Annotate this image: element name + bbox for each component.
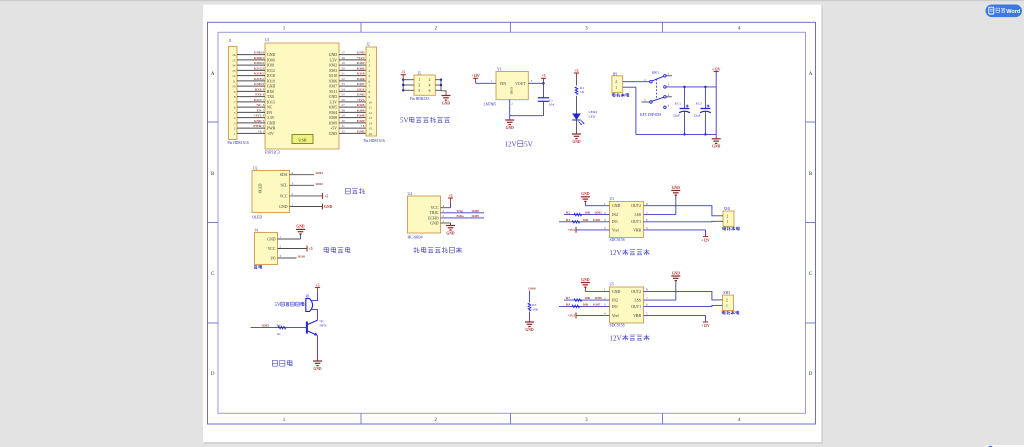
svg-text:IO07: IO07 (593, 302, 601, 306)
svg-text:11: 11 (369, 106, 373, 110)
svg-text:GND: GND (267, 121, 275, 125)
svg-text:9: 9 (369, 95, 371, 99)
svg-text:Vref: Vref (612, 228, 619, 232)
svg-text:GND: GND (672, 186, 681, 190)
svg-text:27: 27 (342, 103, 346, 107)
svg-text:Word: Word (1006, 9, 1020, 15)
svg-text:11: 11 (261, 77, 264, 81)
svg-text:13: 13 (232, 69, 236, 73)
svg-text:+5: +5 (575, 69, 579, 73)
svg-text:IO09: IO09 (329, 121, 337, 125)
svg-text:10: 10 (261, 82, 265, 86)
svg-text:I/O: I/O (270, 256, 275, 260)
svg-text:IO10: IO10 (298, 255, 306, 259)
svg-text:NC: NC (267, 106, 273, 110)
svg-text:26: 26 (342, 98, 346, 102)
svg-text:14: 14 (369, 121, 373, 125)
svg-text:8: 8 (234, 95, 236, 99)
svg-text:+5: +5 (258, 129, 262, 133)
svg-text:SDA: SDA (280, 173, 288, 177)
svg-text:16: 16 (232, 53, 236, 57)
svg-text:IO02: IO02 (595, 211, 603, 215)
svg-text:VCC: VCC (431, 206, 439, 210)
svg-text:7: 7 (234, 100, 236, 104)
svg-text:SCL: SCL (281, 184, 289, 188)
svg-text:+5: +5 (361, 124, 365, 128)
svg-text:29: 29 (342, 114, 346, 118)
svg-text:EN: EN (267, 111, 272, 115)
svg-text:VIN: VIN (500, 82, 507, 86)
svg-text:4: 4 (369, 69, 371, 73)
svg-text:31: 31 (342, 124, 346, 128)
svg-text:+3V3: +3V3 (567, 228, 575, 232)
svg-text:GND: GND (581, 278, 590, 282)
svg-text:15: 15 (261, 56, 265, 60)
svg-text:GND: GND (296, 225, 305, 229)
svg-text:XH1: XH1 (724, 207, 731, 211)
svg-text:5: 5 (369, 74, 371, 78)
svg-text:IO06: IO06 (595, 296, 603, 300)
svg-text:IO03: IO03 (316, 171, 324, 175)
svg-text:IO02: IO02 (316, 182, 324, 186)
svg-text:1: 1 (726, 304, 728, 308)
svg-text:IO06: IO06 (329, 79, 337, 83)
svg-text:R9: R9 (566, 302, 570, 306)
svg-text:J1: J1 (229, 39, 232, 43)
svg-text:IN2: IN2 (612, 299, 618, 303)
svg-text:1: 1 (234, 132, 236, 136)
svg-text:3: 3 (418, 84, 420, 88)
svg-text:12V: 12V (610, 249, 623, 257)
svg-text:GND: GND (267, 85, 275, 89)
svg-text:10K: 10K (583, 218, 589, 222)
svg-text:GND: GND (525, 328, 534, 332)
svg-text:IO10: IO10 (329, 74, 337, 78)
svg-text:+5: +5 (542, 74, 546, 78)
svg-text:3.3V: 3.3V (330, 58, 338, 62)
svg-text:30: 30 (342, 119, 346, 123)
svg-text:IO01: IO01 (267, 64, 275, 68)
svg-text:12: 12 (261, 72, 265, 76)
svg-text:Pin HDR2X3: Pin HDR2X3 (410, 97, 430, 101)
svg-text:OLED: OLED (259, 183, 263, 193)
svg-text:IO09: IO09 (472, 214, 480, 218)
svg-text:SDC9158: SDC9158 (610, 324, 625, 328)
svg-text:R7: R7 (566, 296, 570, 300)
svg-text:GND: GND (672, 271, 681, 275)
svg-text:+12V: +12V (701, 239, 710, 243)
svg-text:22: 22 (342, 77, 346, 81)
svg-text:2: 2 (429, 78, 431, 82)
svg-text:12V: 12V (610, 334, 623, 342)
svg-text:22uF: 22uF (694, 114, 701, 118)
svg-text:25: 25 (342, 93, 346, 97)
svg-text:21: 21 (342, 72, 346, 76)
svg-text:GND: GND (572, 140, 581, 144)
svg-text:ECHO: ECHO (428, 216, 439, 220)
svg-text:IO08: IO08 (472, 209, 480, 213)
svg-text:IO09: IO09 (357, 119, 365, 123)
svg-text:+5V: +5V (267, 132, 274, 136)
svg-text:12: 12 (369, 111, 373, 115)
svg-text:GND: GND (267, 53, 275, 57)
svg-text:+3V3: +3V3 (567, 314, 575, 318)
svg-text:OLED: OLED (252, 215, 262, 219)
svg-text:IO05: IO05 (357, 103, 365, 107)
svg-text:17: 17 (342, 51, 346, 55)
svg-text:GND: GND (612, 204, 620, 208)
svg-text:+5: +5 (309, 247, 313, 251)
svg-text:IO10: IO10 (357, 72, 365, 76)
svg-text:EC2: EC2 (696, 101, 702, 105)
svg-text:14: 14 (232, 64, 236, 68)
svg-text:3: 3 (369, 64, 371, 68)
svg-text:24: 24 (342, 87, 346, 91)
svg-text:J4: J4 (255, 228, 258, 232)
svg-text:5: 5 (418, 89, 420, 93)
svg-text:32: 32 (342, 129, 346, 133)
svg-text:GND: GND (324, 205, 333, 209)
svg-text:16: 16 (369, 132, 373, 136)
svg-text:10K: 10K (583, 302, 589, 306)
svg-text:IO00: IO00 (267, 58, 275, 62)
svg-text:22uF: 22uF (673, 114, 680, 118)
svg-text:2: 2 (727, 214, 729, 218)
svg-text:GND: GND (254, 119, 262, 123)
svg-text:IO05: IO05 (262, 324, 270, 328)
svg-text:IN1: IN1 (612, 220, 618, 224)
svg-text:R3: R3 (532, 303, 536, 307)
svg-text:PWR: PWR (267, 127, 276, 131)
svg-text:EC1: EC1 (675, 101, 681, 105)
svg-text:12: 12 (232, 74, 236, 78)
svg-text:GND: GND (712, 145, 721, 149)
svg-text:18: 18 (342, 56, 346, 60)
svg-text:GND: GND (509, 87, 513, 95)
svg-text:IN1: IN1 (612, 305, 618, 309)
svg-text:GND: GND (329, 132, 337, 136)
svg-text:Echo: Echo (457, 214, 465, 218)
svg-text:D: D (211, 372, 215, 377)
svg-text:IO13: IO13 (267, 100, 275, 104)
svg-text:R6: R6 (277, 324, 281, 328)
svg-text:10: 10 (232, 85, 236, 89)
svg-text:Pin HDR1X16: Pin HDR1X16 (364, 139, 385, 143)
svg-text:PWR: PWR (253, 124, 262, 128)
svg-text:NC: NC (256, 103, 262, 107)
svg-text:GND: GND (430, 221, 438, 225)
svg-text:1K: 1K (277, 332, 282, 336)
svg-text:14: 14 (261, 61, 265, 65)
svg-text:9: 9 (234, 90, 236, 94)
svg-text:7: 7 (369, 85, 371, 89)
svg-text:KFT DIP-8X8: KFT DIP-8X8 (640, 113, 661, 117)
svg-text:A: A (809, 72, 813, 77)
svg-text:3.3V: 3.3V (330, 100, 338, 104)
svg-text:R2: R2 (566, 211, 570, 215)
svg-text:+3V3: +3V3 (356, 56, 364, 60)
svg-text:GND: GND (329, 95, 337, 99)
svg-text:+3V3: +3V3 (356, 98, 364, 102)
svg-text:+5: +5 (316, 283, 320, 287)
svg-text:15: 15 (232, 58, 236, 62)
svg-text:19: 19 (342, 61, 346, 65)
svg-text:2: 2 (234, 127, 236, 131)
svg-text:Q1: Q1 (320, 319, 325, 323)
svg-text:4: 4 (429, 84, 431, 88)
svg-text:+3V3: +3V3 (253, 114, 261, 118)
svg-text:6: 6 (369, 79, 371, 83)
svg-text:IO12: IO12 (267, 69, 275, 73)
svg-text:10K: 10K (585, 296, 591, 300)
svg-text:GND: GND (581, 192, 590, 196)
svg-text:SW1: SW1 (652, 71, 659, 75)
svg-text:IO03: IO03 (593, 218, 601, 222)
svg-text:U1: U1 (265, 38, 270, 42)
svg-text:R1: R1 (580, 86, 584, 90)
svg-text:2: 2 (726, 298, 728, 302)
svg-text:IO18: IO18 (267, 74, 275, 78)
svg-text:13: 13 (369, 116, 373, 120)
svg-text:LM7805: LM7805 (484, 102, 497, 106)
svg-text:D: D (809, 372, 813, 377)
svg-text:VBB: VBB (633, 314, 641, 318)
svg-text:OUT2: OUT2 (631, 290, 641, 294)
svg-text:GND: GND (612, 290, 620, 294)
svg-text:6: 6 (234, 106, 236, 110)
svg-text:+5: +5 (401, 71, 405, 75)
svg-text:+5V: +5V (330, 127, 337, 131)
svg-text:12V: 12V (505, 140, 518, 148)
svg-text:J2: J2 (367, 43, 370, 47)
svg-text:A: A (211, 72, 215, 77)
svg-text:1: 1 (418, 78, 420, 82)
svg-text:OUT1: OUT1 (631, 220, 641, 224)
svg-text:1: 1 (369, 53, 371, 57)
svg-text:TX0: TX0 (255, 93, 262, 97)
svg-text:IO04: IO04 (329, 111, 337, 115)
svg-text:U2: U2 (253, 166, 258, 170)
svg-text:IO08: IO08 (329, 116, 337, 120)
svg-text:GND: GND (442, 101, 451, 105)
svg-text:1: 1 (727, 220, 729, 224)
svg-text:VOUT: VOUT (515, 82, 526, 86)
svg-text:IO04: IO04 (357, 108, 365, 112)
svg-text:3: 3 (234, 121, 236, 125)
svg-text:IO08: IO08 (357, 114, 365, 118)
svg-text:1K: 1K (580, 90, 585, 94)
svg-text:IO06: IO06 (357, 77, 365, 81)
svg-text:ESP32C3: ESP32C3 (265, 150, 280, 154)
svg-text:3.3V: 3.3V (267, 116, 275, 120)
svg-text:LSS: LSS (634, 213, 641, 217)
svg-text:5V: 5V (400, 117, 410, 125)
svg-text:IO06: IO06 (528, 287, 536, 291)
svg-text:13: 13 (261, 66, 265, 70)
svg-text:NPN: NPN (320, 324, 327, 328)
svg-text:VBB: VBB (633, 228, 641, 232)
svg-text:OUT1: OUT1 (631, 305, 641, 309)
svg-text:Trig: Trig (457, 209, 463, 213)
svg-text:GND: GND (357, 93, 365, 97)
svg-text:IO03: IO03 (329, 69, 337, 73)
svg-text:VCC: VCC (268, 247, 276, 251)
svg-text:2: 2 (369, 58, 371, 62)
svg-text:TRIG: TRIG (430, 211, 439, 215)
svg-text:U5: U5 (610, 283, 615, 287)
svg-text:GND: GND (446, 231, 455, 235)
svg-text:8: 8 (369, 90, 371, 94)
svg-text:GND: GND (357, 129, 365, 133)
svg-text:IO03: IO03 (357, 66, 365, 70)
svg-text:IO02: IO02 (357, 61, 365, 65)
svg-text:10K: 10K (585, 211, 591, 215)
svg-text:GND: GND (357, 51, 365, 55)
svg-text:IO11: IO11 (329, 90, 337, 94)
svg-text:11: 11 (232, 79, 236, 83)
svg-text:GND: GND (279, 205, 287, 209)
svg-text:IO11: IO11 (357, 87, 365, 91)
svg-text:1: 1 (615, 86, 617, 90)
svg-text:EN: EN (257, 108, 262, 112)
svg-text:SDC9158: SDC9158 (610, 238, 625, 242)
svg-text:GND: GND (267, 237, 275, 241)
svg-text:5V: 5V (275, 303, 281, 308)
svg-text:USB: USB (298, 137, 306, 142)
svg-text:RX0: RX0 (255, 87, 262, 91)
svg-text:OUT2: OUT2 (631, 204, 641, 208)
svg-text:IO02: IO02 (329, 64, 337, 68)
svg-text:+12V: +12V (701, 324, 710, 328)
svg-text:U3: U3 (610, 197, 615, 201)
svg-text:28: 28 (342, 108, 346, 112)
svg-text:20: 20 (342, 66, 346, 70)
svg-text:10K: 10K (532, 307, 539, 311)
svg-text:10: 10 (369, 100, 373, 104)
svg-text:6: 6 (429, 89, 431, 93)
svg-text:4: 4 (234, 116, 236, 120)
svg-text:VCC: VCC (280, 194, 288, 198)
svg-text:TX0: TX0 (267, 95, 274, 99)
svg-text:Vref: Vref (612, 314, 619, 318)
svg-text:2: 2 (615, 80, 617, 84)
svg-text:23: 23 (342, 82, 346, 86)
svg-text:RX0: RX0 (267, 90, 274, 94)
svg-text:IO05: IO05 (329, 106, 337, 110)
svg-text:B1: B1 (306, 294, 310, 298)
svg-text:GND: GND (506, 126, 515, 130)
svg-text:LED: LED (589, 114, 596, 118)
svg-text:15: 15 (369, 127, 373, 131)
svg-text:IO07: IO07 (357, 82, 365, 86)
svg-text:IN2: IN2 (612, 213, 618, 217)
svg-text:R4: R4 (566, 218, 570, 222)
svg-text:16: 16 (261, 51, 265, 55)
svg-text:+12V: +12V (712, 67, 721, 71)
svg-text:XH3: XH3 (723, 291, 730, 295)
svg-text:GND: GND (329, 53, 337, 57)
svg-text:+5: +5 (324, 194, 328, 198)
svg-text:+5: +5 (449, 194, 453, 198)
svg-text:IO13: IO13 (254, 98, 262, 102)
svg-text:104: 104 (549, 103, 555, 107)
svg-text:5: 5 (234, 111, 236, 115)
svg-text:IO07: IO07 (329, 85, 337, 89)
svg-text:HC-SR04: HC-SR04 (408, 235, 423, 239)
svg-text:IO19: IO19 (267, 79, 275, 83)
svg-text:LED4: LED4 (589, 110, 598, 114)
svg-text:5V: 5V (524, 140, 534, 148)
svg-text:+12V: +12V (471, 74, 480, 78)
svg-text:GND: GND (313, 367, 322, 371)
svg-text:Pin HDR1X16: Pin HDR1X16 (228, 141, 249, 145)
svg-text:Y1: Y1 (497, 67, 502, 71)
svg-text:LSS: LSS (634, 299, 641, 303)
